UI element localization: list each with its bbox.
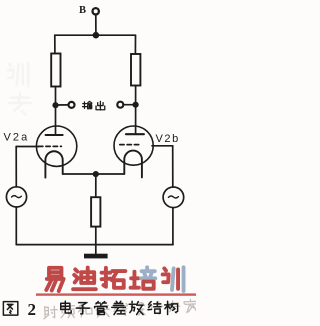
watermark ghost 射频和天线设计专家: [43, 299, 197, 319]
node top junction: [93, 32, 100, 39]
wire rail to R2: [134, 35, 136, 54]
tube V2b envelope: [114, 126, 153, 165]
wire right source top lead: [172, 146, 174, 187]
wire cathodes to tail: [63, 173, 125, 175]
wire top rail: [55, 34, 136, 36]
svg-text:B: B: [79, 5, 86, 16]
source left (signal source): [6, 187, 26, 207]
resistor R3: [91, 197, 100, 226]
wire V2b grid lead: [152, 145, 173, 147]
wire left source bottom lead: [15, 207, 17, 245]
tube V2a anode: [46, 134, 63, 136]
tube V2b anode: [126, 133, 144, 135]
terminal right output: [117, 102, 123, 108]
svg-text:V2a: V2a: [4, 132, 30, 144]
wire right source bottom lead: [172, 208, 174, 245]
terminal left output: [69, 102, 75, 108]
node tail junction: [93, 171, 99, 177]
wire rail to R1: [54, 35, 56, 53]
tube V2b grid (dashed): [120, 144, 142, 146]
caption 图 2 电子管差放结构: [3, 302, 17, 315]
wire left output stub: [56, 104, 69, 106]
resistor R2: [131, 54, 140, 86]
wire B to rail: [95, 15, 97, 33]
tube V2a cathode: [45, 151, 62, 177]
tube V2a envelope: [36, 126, 76, 166]
faint watermark fragment upper left: [8, 63, 31, 114]
wire bottom rail: [16, 244, 173, 246]
label 输出: [83, 101, 92, 108]
wire R2 to plate V2b: [135, 86, 137, 135]
wire right output stub: [124, 104, 136, 106]
svg-text:2: 2: [28, 300, 37, 319]
source left tilde: [12, 196, 22, 198]
resistor R1: [51, 54, 60, 87]
terminal B: [93, 8, 99, 14]
wire left source top lead: [15, 147, 17, 187]
ground: [84, 254, 108, 259]
svg-text:V2b: V2b: [156, 133, 180, 145]
node right output junction: [133, 102, 139, 108]
tube V2a grid (dashed): [39, 145, 62, 147]
watermark logo 易迪拓培训: [46, 267, 183, 291]
source right (signal source): [163, 187, 184, 208]
wire tail to R3: [95, 174, 97, 197]
source right tilde: [168, 196, 178, 198]
wire V2a grid lead: [16, 146, 38, 148]
tube V2b cathode: [124, 151, 142, 178]
wire R1 to plate V2a: [55, 87, 57, 136]
wire R3 to ground: [95, 227, 97, 254]
watermark red underline: [36, 293, 196, 295]
node left output junction: [52, 102, 58, 108]
